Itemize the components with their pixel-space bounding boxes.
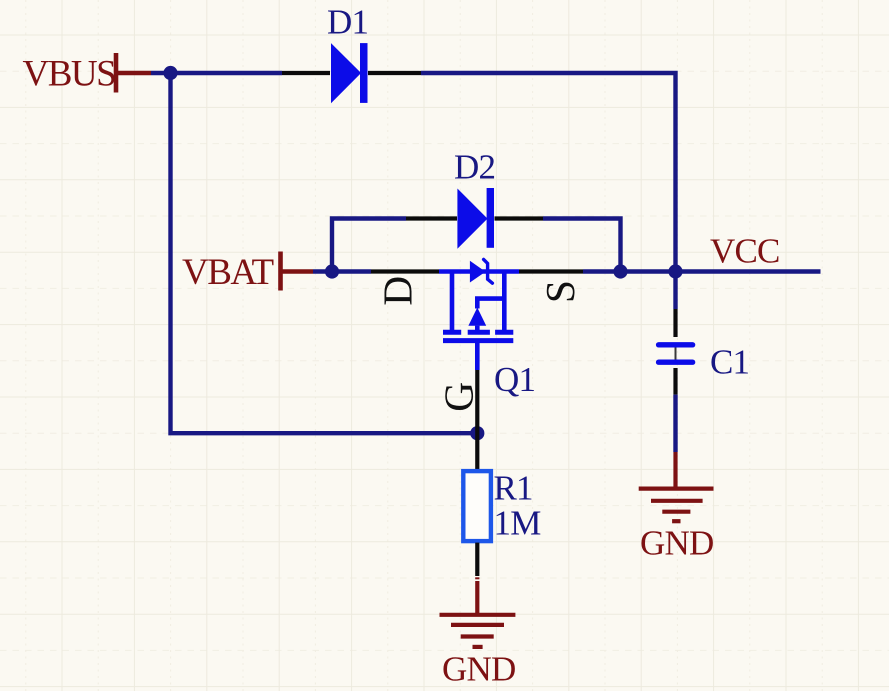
ground GND <box>639 452 714 521</box>
svg-text:R1: R1 <box>494 469 533 508</box>
power port VBAT <box>182 252 313 293</box>
wire <box>421 73 676 272</box>
junction VBAT node <box>325 264 339 278</box>
power port VBUS <box>23 53 152 95</box>
svg-text:GND: GND <box>640 524 713 563</box>
wire <box>543 219 621 272</box>
junction VCC node <box>668 264 682 278</box>
capacitor C1 <box>659 309 693 395</box>
svg-text:GND: GND <box>442 650 515 689</box>
svg-text:S: S <box>537 280 583 303</box>
junction source node <box>613 264 627 278</box>
Q1 source pin <box>519 269 583 273</box>
wire <box>673 395 677 452</box>
diode D2 <box>406 188 543 249</box>
wire <box>583 269 821 273</box>
svg-text:D2: D2 <box>454 148 495 187</box>
junction gate node <box>470 426 484 440</box>
wire <box>313 269 371 273</box>
svg-text:VBAT: VBAT <box>182 252 274 293</box>
wire <box>171 73 478 433</box>
svg-text:VBUS: VBUS <box>23 54 116 95</box>
svg-text:VCC: VCC <box>710 232 780 271</box>
transistor Q1 <box>439 259 519 370</box>
ground GND <box>440 581 516 647</box>
Q1 drain pin <box>371 269 439 273</box>
diode D1 <box>282 43 421 103</box>
Q1 gate pin <box>475 370 479 470</box>
svg-text:D: D <box>375 276 421 306</box>
resistor R1 <box>463 471 491 579</box>
svg-text:1M: 1M <box>494 504 542 543</box>
svg-text:G: G <box>436 382 482 412</box>
svg-text:C1: C1 <box>710 343 749 382</box>
svg-text:Q1: Q1 <box>494 360 535 399</box>
wire VBAT node up to D2 anode <box>332 219 406 272</box>
wire VCC node down to C1 <box>673 272 677 310</box>
junction VBUS node <box>163 66 177 80</box>
wire <box>151 71 282 75</box>
svg-text:D1: D1 <box>327 3 368 42</box>
